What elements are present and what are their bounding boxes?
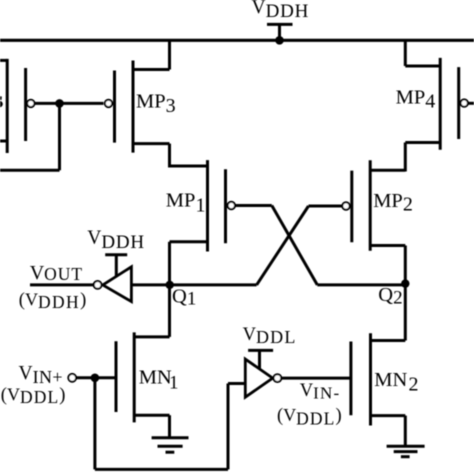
junction dot on gate wire <box>55 99 64 108</box>
svg-text:MN1: MN1 <box>139 367 179 394</box>
svg-text:MP4: MP4 <box>396 87 436 113</box>
svg-text:VDDH: VDDH <box>252 0 310 22</box>
ground symbol of MN1 <box>152 438 189 452</box>
wire MP5 gate to MP3 gate <box>35 102 104 105</box>
svg-text:(VDDH): (VDDH) <box>19 290 86 313</box>
transistor MP3 <box>105 40 170 167</box>
svg-text:VOUT: VOUT <box>30 262 83 284</box>
svg-text:Q1: Q1 <box>172 285 196 309</box>
node Q1 junction dot <box>166 281 174 289</box>
svg-text:VIN+: VIN+ <box>19 363 63 387</box>
transistor MP1 <box>170 160 236 285</box>
wire VIN+ to MN1 gate <box>77 376 117 379</box>
junction dot on VDDH rail <box>275 36 284 45</box>
svg-text:MP3: MP3 <box>136 91 176 117</box>
transistor MP2 <box>342 160 405 283</box>
svg-text:MP2: MP2 <box>373 190 413 216</box>
junction dot on VIN+ wire <box>91 374 100 383</box>
cross-coupling wire MP1 gate to Q2 <box>235 206 405 285</box>
svg-text:VDDH: VDDH <box>87 228 145 254</box>
svg-text:(VDDL): (VDDL) <box>277 405 342 428</box>
output inverter U1 (VOUT buffer) <box>30 255 170 302</box>
transistor MN1 <box>116 285 170 438</box>
wire VIN+ junction down to VDDL inverter input <box>95 378 245 470</box>
transistor MP4 <box>405 40 474 171</box>
svg-text:VIN-: VIN- <box>300 381 341 403</box>
svg-text:Q2: Q2 <box>378 284 402 308</box>
inverter U2 (VDDL input inverter) <box>245 350 351 397</box>
svg-text:MP1: MP1 <box>166 190 206 217</box>
wire from gate junction down and left off image <box>0 103 60 170</box>
VDDH supply symbol <box>267 24 293 40</box>
svg-text:(VDDL): (VDDL) <box>1 384 66 407</box>
node Q2 junction dot <box>401 279 409 287</box>
transistor MN2 <box>351 284 405 447</box>
VDDH power rail <box>0 39 474 42</box>
ground symbol of MN2 <box>387 446 425 457</box>
cross-coupling wire MP2 gate to Q1 <box>170 206 343 285</box>
partial label 5 cut off at left edge <box>0 96 3 107</box>
svg-text:MN2: MN2 <box>374 369 418 396</box>
transistor MP5 (partially cut off at left edge) <box>0 59 35 153</box>
svg-text:VDDL: VDDL <box>243 325 297 347</box>
VIN+ input terminal circle <box>68 374 76 382</box>
